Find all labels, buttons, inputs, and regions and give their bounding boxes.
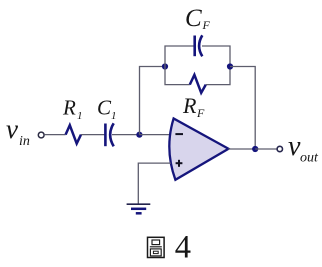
wire R1 to C1 [81,134,105,136]
svg-text:F: F [202,18,211,32]
node C right junction of feedback network [227,63,233,69]
ground [127,204,151,213]
svg-text:v: v [6,114,18,144]
wire RF to node C (bottom-right of loop) [206,67,230,85]
wire node D to output terminal [255,148,277,150]
wire node B to RF (bottom-left of loop) [165,67,190,85]
label CF [185,5,211,32]
svg-text:in: in [19,134,30,149]
capacitor CF [195,35,203,56]
svg-text:C: C [97,96,112,120]
svg-text:F: F [196,106,205,120]
label RF [182,93,205,120]
svg-text:C: C [185,5,202,32]
wire node B to CF (top-left of loop) [165,46,195,67]
terminal v_out [277,146,282,151]
wire node C to output node [230,67,255,150]
svg-text:R: R [182,93,197,118]
wire op-amp output to node D [228,148,255,150]
wire CF to node C (top-right of loop) [202,46,230,67]
svg-text:R: R [62,96,76,120]
svg-text:4: 4 [175,229,191,265]
caption figure character 圖 drawn as strokes [148,237,165,257]
label v_in [6,114,30,149]
node A junction dot at op-amp inverting input [136,132,142,138]
caption figure number 4 [175,229,191,265]
terminal v_in [38,132,44,138]
label v_out [288,131,319,166]
resistor RF [190,75,206,93]
wire node A to op-amp inverting input [139,134,170,136]
op-amp non-inverting input plus sign [176,160,183,167]
label C1 [97,96,117,123]
label R1 [62,96,83,123]
node D output junction dot [252,146,258,152]
svg-text:1: 1 [77,110,83,122]
svg-text:1: 1 [111,110,117,122]
op-amp U1 [169,119,228,180]
capacitor C1 [105,123,113,146]
wire input terminal to R1 [44,134,65,136]
node B left junction of feedback network [162,63,168,69]
wire C1 to node A [112,134,139,136]
resistor R1 [66,125,81,143]
svg-text:out: out [300,151,319,166]
op-amp inverting input minus sign [175,133,183,135]
wire ground to op-amp non-inverting input [138,163,171,204]
wire node A up to feedback network [140,67,166,135]
